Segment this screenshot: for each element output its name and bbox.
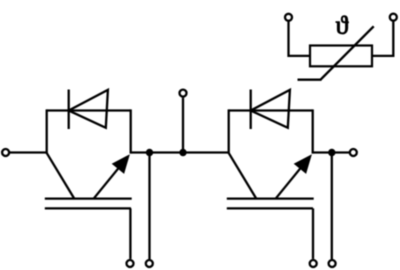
terminal 3: right emitter terminal <box>350 149 357 156</box>
junction: auxiliary emitter node of Q2 <box>328 149 335 156</box>
wire: Q2 auxiliary emitter down <box>331 153 333 260</box>
wire: thermistor left lead <box>289 21 311 56</box>
terminal: Q1 gate <box>127 260 134 267</box>
wire: Q1 auxiliary emitter down <box>148 153 150 260</box>
wire: AC output up <box>182 98 184 153</box>
wire: Q2 gate lead <box>312 208 314 259</box>
junction: auxiliary emitter node of Q1 <box>146 149 153 156</box>
label: thermistor temperature symbol (theta) <box>336 16 349 34</box>
terminal 1: left collector terminal <box>2 149 9 156</box>
wire: thermistor right lead <box>372 21 393 56</box>
junction: AC output node <box>179 149 186 156</box>
terminal: Q2 gate <box>310 260 317 267</box>
diode D2 (anti-parallel, right) <box>251 90 290 130</box>
wire: Q1 gate lead <box>129 208 131 259</box>
wire: Q2 emitter to terminal 3 <box>313 151 350 153</box>
thermistor R1 (NTC) <box>298 26 374 79</box>
terminal: Q2 auxiliary emitter <box>329 260 336 267</box>
wire: Q1 emitter output rail <box>131 151 229 153</box>
terminal: Q1 auxiliary emitter <box>146 260 153 267</box>
diode D1 (anti-parallel, left) <box>69 90 108 130</box>
transistor Q1 (IGBT, left) <box>45 109 132 208</box>
terminal 2: AC output <box>180 90 187 97</box>
transistor Q2 (IGBT, right) <box>227 109 314 208</box>
wire: terminal 1 to Q1 <box>9 151 47 153</box>
terminal 5: thermistor right <box>390 14 397 21</box>
terminal 4: thermistor left <box>285 14 292 21</box>
